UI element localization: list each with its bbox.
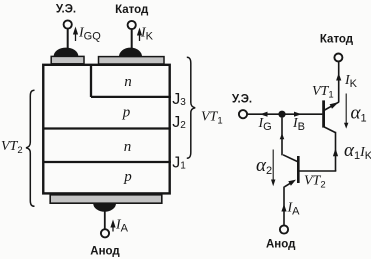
svg-text:n: n — [124, 139, 132, 155]
svg-text:n: n — [124, 74, 132, 90]
svg-text:У.Э.: У.Э. — [232, 94, 252, 106]
svg-text:У.Э.: У.Э. — [56, 4, 76, 16]
svg-text:p: p — [122, 104, 131, 120]
svg-text:Анод: Анод — [266, 239, 296, 251]
svg-text:Анод: Анод — [90, 245, 120, 257]
svg-text:Катод: Катод — [115, 4, 149, 16]
svg-text:p: p — [123, 169, 132, 185]
svg-text:Катод: Катод — [320, 33, 354, 45]
